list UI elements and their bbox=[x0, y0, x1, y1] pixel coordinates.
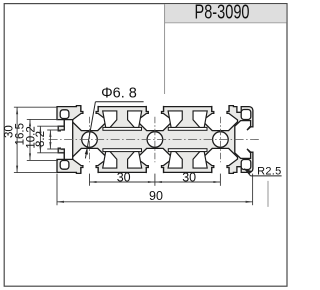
stem side cavity right of stem 187.65 top bbox=[193, 111, 207, 128]
profile body outline bbox=[57, 106, 253, 174]
T-slot cavity bottom core x=154.9 bbox=[138, 148, 172, 173]
stem side cavity left of stem 187.65 top bbox=[168, 111, 182, 128]
center hole x=89.5 bbox=[82, 132, 98, 148]
T-slot cavity top core x=220.4 bbox=[203, 106, 237, 131]
svg-text:Φ6. 8: Φ6. 8 bbox=[101, 85, 137, 101]
dim 16.5 left bbox=[27, 118, 58, 120]
vertical center tick hole x=89.5 bbox=[89, 117, 91, 162]
horizontal center line bbox=[49, 139, 259, 141]
title cell left border bbox=[164, 4, 166, 94]
leader and label R2.5 bbox=[244, 169, 250, 176]
horizontal slot below web 122.2 bottom bbox=[103, 149, 142, 152]
center hole x=154.9 bbox=[147, 132, 163, 148]
svg-text:30: 30 bbox=[117, 171, 131, 185]
T-slot cavity top core x=89.5 bbox=[72, 106, 106, 131]
dim 30 left bbox=[14, 106, 57, 108]
dim 8.2 left bbox=[47, 129, 62, 131]
stem side cavity left of stem 122.2 top bbox=[103, 111, 117, 128]
corner hole bbox=[60, 110, 69, 119]
horizontal slot above web 187.65 top bbox=[168, 127, 207, 130]
corner hole bbox=[241, 110, 251, 120]
stem side cavity right of stem 122.2 bottom bbox=[128, 152, 142, 169]
vertical center tick hole x=220.4 bbox=[219, 117, 221, 162]
horizontal slot above web 122.2 top bbox=[103, 127, 142, 130]
T-slot cavity bottom core x=89.5 bbox=[72, 148, 106, 173]
T-slot cavity bottom core x=220.4 bbox=[203, 148, 237, 173]
dim 30 bottom 1 bbox=[89, 174, 91, 186]
svg-text:R2.5: R2.5 bbox=[257, 165, 281, 177]
grid line fragment bottom right bbox=[267, 181, 269, 207]
left end slot pocket bbox=[61, 120, 73, 160]
vertical center tick hole x=154.9 bbox=[154, 117, 156, 162]
horizontal slot below web 187.65 bottom bbox=[168, 149, 207, 152]
leader and label dia 6.8 bbox=[95, 101, 143, 103]
dim 30 bottom 2 bbox=[219, 174, 221, 186]
svg-text:P8-3090: P8-3090 bbox=[195, 1, 250, 24]
svg-text:90: 90 bbox=[149, 189, 163, 203]
center hole x=220.4 bbox=[213, 132, 229, 148]
svg-text:30: 30 bbox=[182, 171, 196, 185]
stem side cavity left of stem 187.65 bottom bbox=[168, 152, 182, 169]
svg-text:8.2: 8.2 bbox=[35, 131, 47, 147]
corner hole bbox=[60, 161, 69, 170]
stem side cavity right of stem 122.2 top bbox=[128, 111, 142, 128]
dim 90 bottom bbox=[56, 174, 58, 206]
title bar bbox=[165, 4, 287, 23]
stem side cavity right of stem 187.65 bottom bbox=[193, 152, 207, 169]
T-slot cavity top core x=154.9 bbox=[138, 106, 172, 131]
stem side cavity left of stem 122.2 bottom bbox=[103, 152, 117, 169]
dim 10.2 left bbox=[37, 125, 60, 127]
corner hole bbox=[241, 160, 251, 170]
